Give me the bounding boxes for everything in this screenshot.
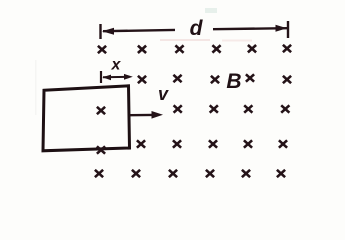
dimension d: left end bar xyxy=(99,24,101,39)
field crosses row 2 xyxy=(138,76,146,83)
dimension x: right arrowhead xyxy=(124,74,133,80)
field crosses row 3 xyxy=(174,105,182,112)
dimension x: left bar xyxy=(100,71,102,83)
svg-text:B: B xyxy=(226,70,241,93)
dimension x: left arrowhead xyxy=(102,75,111,81)
dimension d: left arrowhead xyxy=(102,28,114,35)
dimension d: right end bar xyxy=(287,21,289,38)
field crosses row 4 xyxy=(137,140,145,147)
field crosses row 5 xyxy=(95,170,103,177)
dimension x: line xyxy=(103,76,126,78)
dimension d: right arrowhead xyxy=(276,25,288,32)
conducting rectangular loop xyxy=(43,86,130,151)
dimension d: left line segment xyxy=(103,30,175,31)
velocity arrow v xyxy=(130,114,153,117)
dimension d: right line segment xyxy=(213,28,287,29)
svg-text:x: x xyxy=(111,57,122,74)
svg-text:v: v xyxy=(158,84,169,104)
field crosses row 1 xyxy=(98,46,106,53)
svg-text:d: d xyxy=(190,17,204,40)
field cross under loop bottom edge xyxy=(97,146,105,153)
field cross inside loop xyxy=(97,107,105,114)
